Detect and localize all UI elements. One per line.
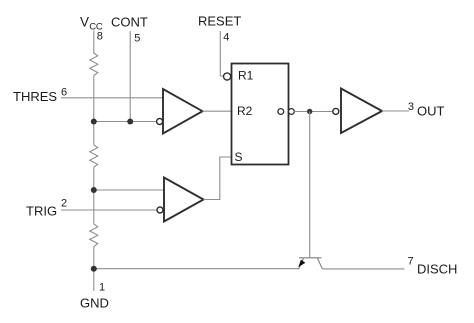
svg-text:7: 7 — [408, 256, 414, 268]
wire TRIG to comparator U2 inverting input — [61, 209, 157, 211]
wire U2 output to latch S input — [204, 157, 232, 200]
wire divider between R2 and node B — [93, 167, 95, 224]
latch output circle inside box — [278, 109, 284, 115]
svg-text:4: 4 — [223, 32, 229, 44]
svg-text:S: S — [235, 150, 243, 164]
bubble U3 input — [333, 108, 339, 114]
wire THRES to comparator U1 non-inverting input — [61, 97, 163, 99]
svg-text:6: 6 — [61, 87, 67, 99]
svg-text:RESET: RESET — [198, 14, 241, 29]
transistor Q1 collector — [318, 258, 323, 269]
svg-text:THRES: THRES — [13, 89, 57, 104]
comparator U1 (threshold) — [163, 89, 203, 134]
resistor R2 (middle of divider) — [90, 145, 98, 167]
wire RESET vertical to latch R1 bubble — [220, 31, 223, 76]
bubble latch R1 input — [224, 73, 231, 80]
wire VCC vertical to resistor R1 — [93, 31, 95, 54]
wire latch output to buffer U3 input — [294, 111, 332, 113]
svg-text:5: 5 — [134, 33, 140, 45]
label VCC pin name — [80, 15, 103, 33]
junction GND node — [91, 266, 97, 272]
wire GND rail to transistor Q1 emitter — [94, 268, 299, 270]
wire node A horizontal to comparator U1 inverting input — [94, 121, 157, 123]
svg-text:OUT: OUT — [417, 104, 445, 119]
svg-text:CONT: CONT — [111, 15, 148, 30]
junction node A at divider — [91, 119, 97, 125]
svg-text:3: 3 — [408, 101, 414, 113]
buffer U3 (output stage) — [341, 89, 382, 134]
wire divider between R1 and node A — [93, 76, 95, 145]
transistor Q1 emitter arrow — [298, 260, 305, 268]
wire U3 output to OUT pin — [382, 110, 409, 112]
svg-text:TRIG: TRIG — [26, 204, 57, 219]
wire CONT vertical to node A — [129, 31, 131, 122]
svg-text:R2: R2 — [237, 104, 253, 118]
junction CONT on node A — [127, 119, 133, 125]
wire output node down to transistor Q1 base — [309, 112, 311, 258]
resistor R1 (top of divider) — [90, 53, 98, 76]
wire node B to comparator U2 non-inverting input — [94, 189, 164, 191]
comparator U2 (trigger) — [164, 178, 204, 222]
bubble latch output — [289, 109, 295, 115]
junction output node to discharge transistor — [307, 109, 312, 114]
wire Q1 collector to DISCH pin — [322, 268, 404, 270]
transistor Q1 emitter — [299, 258, 304, 268]
svg-text:8: 8 — [97, 31, 103, 43]
svg-text:DISCH: DISCH — [417, 262, 457, 277]
svg-text:R1: R1 — [238, 69, 254, 83]
wire divider between R3 and GND node — [93, 247, 95, 292]
svg-text:V: V — [80, 15, 89, 30]
svg-text:2: 2 — [61, 198, 67, 210]
transistor Q1 (discharge) base bar — [299, 257, 322, 259]
bubble U1 inverting input — [157, 119, 163, 125]
resistor R3 (bottom of divider) — [90, 224, 98, 247]
wire U1 output to latch R2 — [203, 110, 232, 112]
junction node B at divider — [91, 187, 97, 193]
svg-text:GND: GND — [80, 295, 109, 310]
bubble U2 inverting input — [157, 207, 163, 213]
latch U4 box — [232, 64, 289, 165]
svg-text:1: 1 — [99, 282, 105, 294]
